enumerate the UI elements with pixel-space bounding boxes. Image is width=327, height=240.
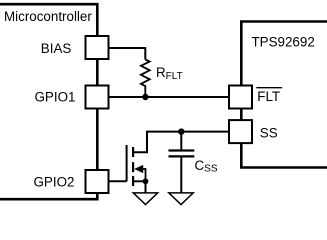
ground symbol under MOSFET bbox=[133, 193, 157, 205]
wire BIAS to resistor RFLT bbox=[110, 48, 146, 60]
transistor Q1 channel segments bbox=[132, 147, 134, 186]
pin square FLT bbox=[229, 86, 252, 109]
transistor Q1 MOSFET gate bar bbox=[126, 145, 128, 181]
pin square SS bbox=[229, 120, 252, 143]
wire GPIO1 to FLT pin bbox=[110, 96, 229, 98]
svg-text:TPS92692: TPS92692 bbox=[252, 35, 315, 50]
pin label FLT with overline bbox=[256, 88, 282, 104]
wire CSS bottom lead bbox=[180, 156, 182, 193]
microcontroller box U-MCU bbox=[0, 4, 97, 199]
ground symbol under CSS bbox=[169, 193, 193, 205]
svg-text:BIAS: BIAS bbox=[41, 41, 72, 56]
pin square GPIO2 bbox=[86, 170, 109, 193]
svg-text:FLT: FLT bbox=[257, 89, 280, 104]
node junction at RFLT / GPIO1 wire bbox=[142, 94, 148, 100]
node junction at source bbox=[143, 178, 149, 184]
svg-text:Microcontroller: Microcontroller bbox=[4, 9, 92, 24]
svg-text:GPIO1: GPIO1 bbox=[35, 90, 76, 105]
wire GPIO2 to MOSFET gate bbox=[110, 180, 127, 182]
node junction at CSS / SS wire bbox=[178, 128, 184, 134]
transistor Q1 body arrow bbox=[134, 165, 145, 181]
wire SS pin to MOSFET drain bbox=[134, 132, 228, 153]
transistor Q1 source stub bbox=[134, 180, 146, 182]
wire CSS top lead bbox=[180, 132, 182, 150]
wire source to ground bbox=[145, 181, 147, 193]
svg-text:GPIO2: GPIO2 bbox=[34, 174, 75, 189]
resistor RFLT bbox=[141, 60, 150, 98]
capacitor CSS bbox=[169, 151, 195, 157]
pin square GPIO1 bbox=[86, 86, 109, 109]
pin square BIAS bbox=[86, 36, 109, 59]
TPS92692 box U1 bbox=[241, 22, 327, 168]
svg-text:SS: SS bbox=[260, 125, 278, 140]
